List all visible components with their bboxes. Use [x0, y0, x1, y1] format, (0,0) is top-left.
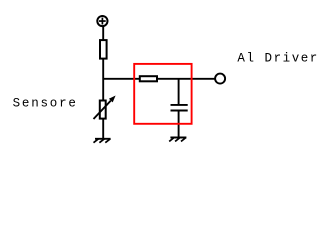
ground under capacitor — [169, 138, 186, 142]
svg-text:Al Driver: Al Driver — [237, 52, 318, 66]
capacitor C1 plates — [171, 105, 188, 111]
power supply +V symbol — [97, 16, 107, 26]
capacitor C1 lead bottom — [178, 111, 180, 138]
resistor R2 (horizontal, inside red box) — [140, 76, 157, 81]
variable resistor RV1 arrow — [94, 96, 116, 120]
variable resistor RV1 (sensor) body — [100, 101, 106, 119]
capacitor C1 lead top — [178, 79, 180, 105]
wire horizontal from node to output terminal — [103, 78, 215, 80]
wire vertical main from power symbol down to left ground — [102, 27, 104, 139]
output terminal circle — [215, 74, 225, 84]
red highlight box around RC filter — [134, 64, 191, 124]
svg-text:Sensore: Sensore — [13, 97, 78, 111]
ground under sensor — [94, 139, 111, 143]
resistor R1 (vertical) — [100, 40, 107, 59]
